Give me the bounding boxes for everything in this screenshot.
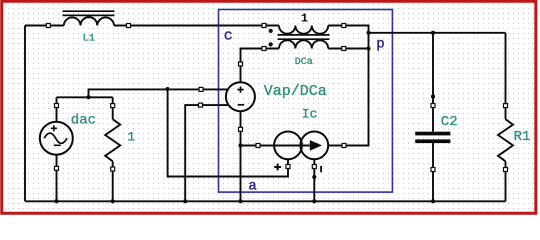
svg-text:Ic: Ic — [302, 107, 318, 122]
wire ctrl plus to Vap — [89, 89, 228, 97]
node p top junction — [366, 31, 370, 35]
wire dac top lead — [56, 97, 58, 122]
pin C2 bottom — [431, 168, 435, 172]
wire resistor 1 bottom lead — [112, 161, 114, 201]
svg-text:dac: dac — [71, 112, 96, 128]
pin Vap top — [239, 62, 243, 66]
svg-text:R1: R1 — [514, 129, 531, 145]
svg-text:C2: C2 — [441, 114, 458, 130]
pin res1 top — [111, 104, 115, 108]
node C2 top junction — [431, 31, 435, 35]
subcircuit box DCa — [219, 10, 393, 193]
wire node p horizontal — [369, 32, 506, 34]
svg-text:a: a — [248, 178, 256, 194]
pin xfmr bottom-right — [342, 47, 346, 51]
polarity dot top — [269, 29, 273, 33]
pin Ic right — [342, 144, 346, 148]
wire Ic out to rail — [313, 160, 315, 202]
svg-text:p: p — [376, 37, 384, 53]
wire L1 to transformer — [114, 25, 279, 27]
svg-text:c: c — [224, 28, 233, 45]
controlled current source Ic — [274, 132, 328, 160]
wire bottom rail — [25, 200, 506, 202]
label plus of Ic — [274, 164, 281, 171]
pin L1 right — [127, 24, 131, 28]
pin res1 bottom — [111, 167, 115, 171]
rail junction a — [238, 199, 242, 203]
svg-text:L1: L1 — [83, 33, 96, 45]
wire transformer bottom-left to Vap top — [241, 49, 280, 83]
pin Vap ctrl minus — [199, 103, 203, 107]
node C2 stem dot — [431, 94, 435, 98]
svg-text:DCa: DCa — [295, 57, 313, 68]
node dac-res junction — [86, 95, 90, 99]
wire R1 top lead — [505, 33, 507, 119]
svg-text:1: 1 — [301, 11, 308, 25]
node Ic out dot — [312, 175, 316, 179]
pin R1 top — [504, 104, 508, 108]
wire transformer bottom-right lead — [328, 48, 368, 50]
wire transformer top-right down to Ic right — [328, 26, 368, 146]
rail junction ctrl — [183, 199, 187, 203]
pin xfmr bottom-left — [262, 47, 266, 51]
pin Vap bottom — [239, 127, 243, 131]
controlled voltage source Vap/DCa — [226, 82, 255, 111]
pin xfmr top-right — [342, 24, 346, 28]
pin L1 left — [46, 24, 50, 28]
wire resistor 1 top lead — [112, 97, 114, 119]
wire ctrl to Ic plus input — [168, 89, 288, 176]
pin Vap ctrl plus — [199, 87, 203, 91]
polarity dot bottom — [269, 42, 273, 46]
wire Vap ctrl minus to rail — [185, 105, 228, 201]
pin dac bottom — [55, 166, 59, 170]
wire Vap bottom to rail — [240, 112, 242, 202]
label I of Ic — [320, 166, 322, 172]
rail junction dac — [54, 199, 58, 203]
resistor 1 — [105, 119, 120, 161]
pin Ic ctrl — [286, 165, 290, 169]
wire dac to resistor top — [57, 96, 113, 98]
node p lower junction — [366, 46, 370, 50]
rail junction C2 — [431, 199, 435, 203]
wire C2 bottom lead — [432, 143, 434, 201]
pin R1 bottom — [504, 168, 508, 172]
pin Ic left — [256, 144, 260, 148]
transformer DCa windings — [278, 26, 330, 49]
pin Ic out — [312, 165, 316, 169]
pin dac top — [55, 104, 59, 108]
rail junction res1 — [111, 199, 115, 203]
pin markers — [46, 24, 507, 172]
wire dac bottom lead — [56, 155, 58, 202]
node Vap bottom junction — [238, 143, 242, 147]
rail junction Ic — [312, 199, 316, 203]
wire left vertical drop — [24, 26, 26, 202]
capacitor C2 — [415, 132, 450, 143]
svg-text:1: 1 — [127, 130, 135, 145]
wire R1 bottom lead — [505, 161, 507, 201]
arrow of current source — [310, 140, 322, 151]
svg-text:Vap/DCa: Vap/DCa — [264, 83, 327, 100]
wire top-left to L1 — [25, 25, 64, 27]
ac source dac — [40, 122, 73, 155]
pin C2 top — [431, 104, 435, 108]
inductor L1 — [63, 11, 115, 25]
wire Vap bottom to Ic left / arrow shaft — [241, 145, 310, 147]
wire C2 top lead — [432, 33, 434, 132]
pin xfmr top-left — [262, 24, 266, 28]
node ctrl junction — [166, 87, 170, 91]
resistor R1 — [498, 119, 513, 161]
